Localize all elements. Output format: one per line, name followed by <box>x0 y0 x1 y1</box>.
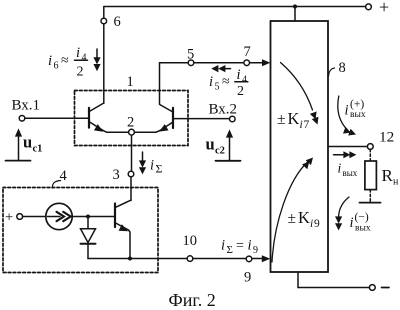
node junction diode top <box>86 215 90 219</box>
svg-text:R: R <box>382 166 394 185</box>
wire Q2 base to Bx.2 <box>173 118 230 120</box>
node 9 <box>246 256 252 262</box>
wire junction to converter top <box>294 7 296 22</box>
svg-text:4: 4 <box>82 53 87 64</box>
svg-text:≈: ≈ <box>61 54 69 69</box>
svg-text:≈: ≈ <box>222 75 230 90</box>
arrow i_vyx(+) (curved) <box>338 96 347 130</box>
svg-text:i: i <box>48 53 52 69</box>
label i6 ~ i4/2 <box>48 45 87 80</box>
svg-text:i: i <box>150 158 154 174</box>
svg-text:3: 3 <box>113 167 120 183</box>
svg-text:Фиг. 2: Фиг. 2 <box>169 290 216 310</box>
svg-text:Σ: Σ <box>156 162 163 176</box>
current source I4 (circle with double arrow) <box>46 203 72 229</box>
svg-text:c2: c2 <box>215 146 225 157</box>
svg-text:12: 12 <box>379 129 394 146</box>
node 7 <box>244 60 250 66</box>
wire current source to Q3 base <box>72 216 114 218</box>
svg-text:вых: вых <box>355 224 371 234</box>
arrow i-sigma current <box>142 152 144 163</box>
wire converter bottom to negative terminal <box>298 272 369 288</box>
arrow i6 current <box>96 49 98 60</box>
svg-text:8: 8 <box>339 60 346 76</box>
label i5 ~ i4/2 <box>209 67 247 99</box>
block 4 dashed (current source block) <box>3 188 158 273</box>
svg-text:i: i <box>350 215 354 231</box>
wire node5/node7 to converter input <box>160 63 263 104</box>
wire top positive rail <box>104 6 366 8</box>
node 6 <box>101 18 107 24</box>
svg-text:i: i <box>237 67 241 83</box>
node junction Q3 emitter / bottom wire <box>128 257 132 261</box>
svg-text:Вх.2: Вх.2 <box>209 102 238 118</box>
svg-text:5: 5 <box>187 47 194 63</box>
svg-text:i: i <box>221 238 225 254</box>
label Rn <box>382 166 400 188</box>
svg-text:Σ: Σ <box>227 244 233 256</box>
wire converter output to node 12 <box>329 146 368 148</box>
svg-text:i: i <box>76 45 80 61</box>
converter block 8 <box>271 21 329 272</box>
svg-text:+: + <box>379 0 389 17</box>
svg-text:2: 2 <box>127 115 134 131</box>
svg-text:±: ± <box>288 210 297 227</box>
arrow i_vyx (rightward double) <box>334 154 346 156</box>
svg-text:c1: c1 <box>33 144 43 155</box>
label i-sigma = i9 <box>221 238 258 257</box>
label u_c1 with arrow <box>18 136 20 160</box>
transistor Q1 (left of pair) <box>88 108 90 128</box>
wire Bx.1 to Q1 base <box>25 117 88 119</box>
svg-text:Вх.1: Вх.1 <box>12 98 41 114</box>
wire to current source <box>23 216 46 218</box>
svg-text:u: u <box>206 135 215 154</box>
label i_vyx <box>338 161 358 179</box>
arrow i_vyx(-) (curved down) <box>339 197 349 218</box>
wire collector Q1 up to rail (node 6 branch) <box>103 7 105 19</box>
svg-text:10: 10 <box>183 233 198 249</box>
svg-text:K: K <box>298 208 310 227</box>
label u_c2 with arrow <box>229 137 231 160</box>
node junction top (rect 8 feed) <box>293 4 297 8</box>
svg-text:±: ± <box>277 111 286 128</box>
svg-text:6: 6 <box>114 14 121 30</box>
svg-text:i: i <box>310 218 313 230</box>
svg-text:9: 9 <box>253 245 258 256</box>
arrow i5 current (leftward) <box>222 68 231 70</box>
svg-text:i: i <box>345 103 349 119</box>
node 10 <box>187 256 193 262</box>
label i-sigma <box>150 158 163 176</box>
node 12 <box>367 144 373 150</box>
terminal Bx.1 <box>19 116 25 122</box>
svg-text:1: 1 <box>127 74 134 90</box>
svg-text:=: = <box>236 239 244 254</box>
svg-text:н: н <box>393 177 399 188</box>
wire summing current to converter (node 10 / node 9) <box>88 258 262 260</box>
terminal Bx.2 <box>230 116 236 122</box>
terminal + (top right) <box>366 4 372 10</box>
svg-text:9: 9 <box>244 270 251 286</box>
diode VD1 <box>87 217 89 229</box>
svg-text:u: u <box>23 133 32 152</box>
svg-text:6: 6 <box>54 61 59 72</box>
load resistor Rn <box>369 149 371 161</box>
svg-text:вых: вых <box>350 110 366 120</box>
svg-text:7: 7 <box>304 119 310 131</box>
svg-text:2: 2 <box>237 84 244 99</box>
svg-text:5: 5 <box>215 82 220 93</box>
svg-text:+: + <box>5 210 13 226</box>
label +-Ki9 <box>288 208 321 230</box>
svg-text:(−): (−) <box>355 212 369 224</box>
wire node 2 down to node 3 <box>131 135 133 171</box>
node 5 <box>188 60 194 66</box>
svg-text:i: i <box>209 74 213 90</box>
arrow Ki9 transfer (curved) <box>272 162 308 263</box>
terminal - (bottom right) <box>369 285 375 291</box>
svg-text:i: i <box>338 161 342 176</box>
node 3 <box>128 171 134 177</box>
label - (minus supply) <box>382 287 390 289</box>
transistor Q2 (right of pair) <box>172 108 174 128</box>
svg-text:9: 9 <box>314 218 320 230</box>
svg-text:4: 4 <box>60 168 68 184</box>
label i_vyx(-) <box>350 212 371 234</box>
node 2 <box>129 129 135 135</box>
svg-text:(+): (+) <box>350 99 364 111</box>
label i_vyx(+) <box>345 99 366 121</box>
label +-Ki7 <box>277 109 310 131</box>
block 1 dashed (differential pair) <box>75 91 189 146</box>
transistor Q3 <box>114 204 116 228</box>
svg-text:i: i <box>248 238 252 254</box>
svg-text:7: 7 <box>244 44 251 60</box>
svg-text:2: 2 <box>77 65 84 80</box>
svg-text:вых: вых <box>343 168 358 178</box>
svg-text:i: i <box>300 119 303 131</box>
svg-text:K: K <box>288 109 300 128</box>
arrow Ki7 transfer (curved) <box>281 63 313 111</box>
